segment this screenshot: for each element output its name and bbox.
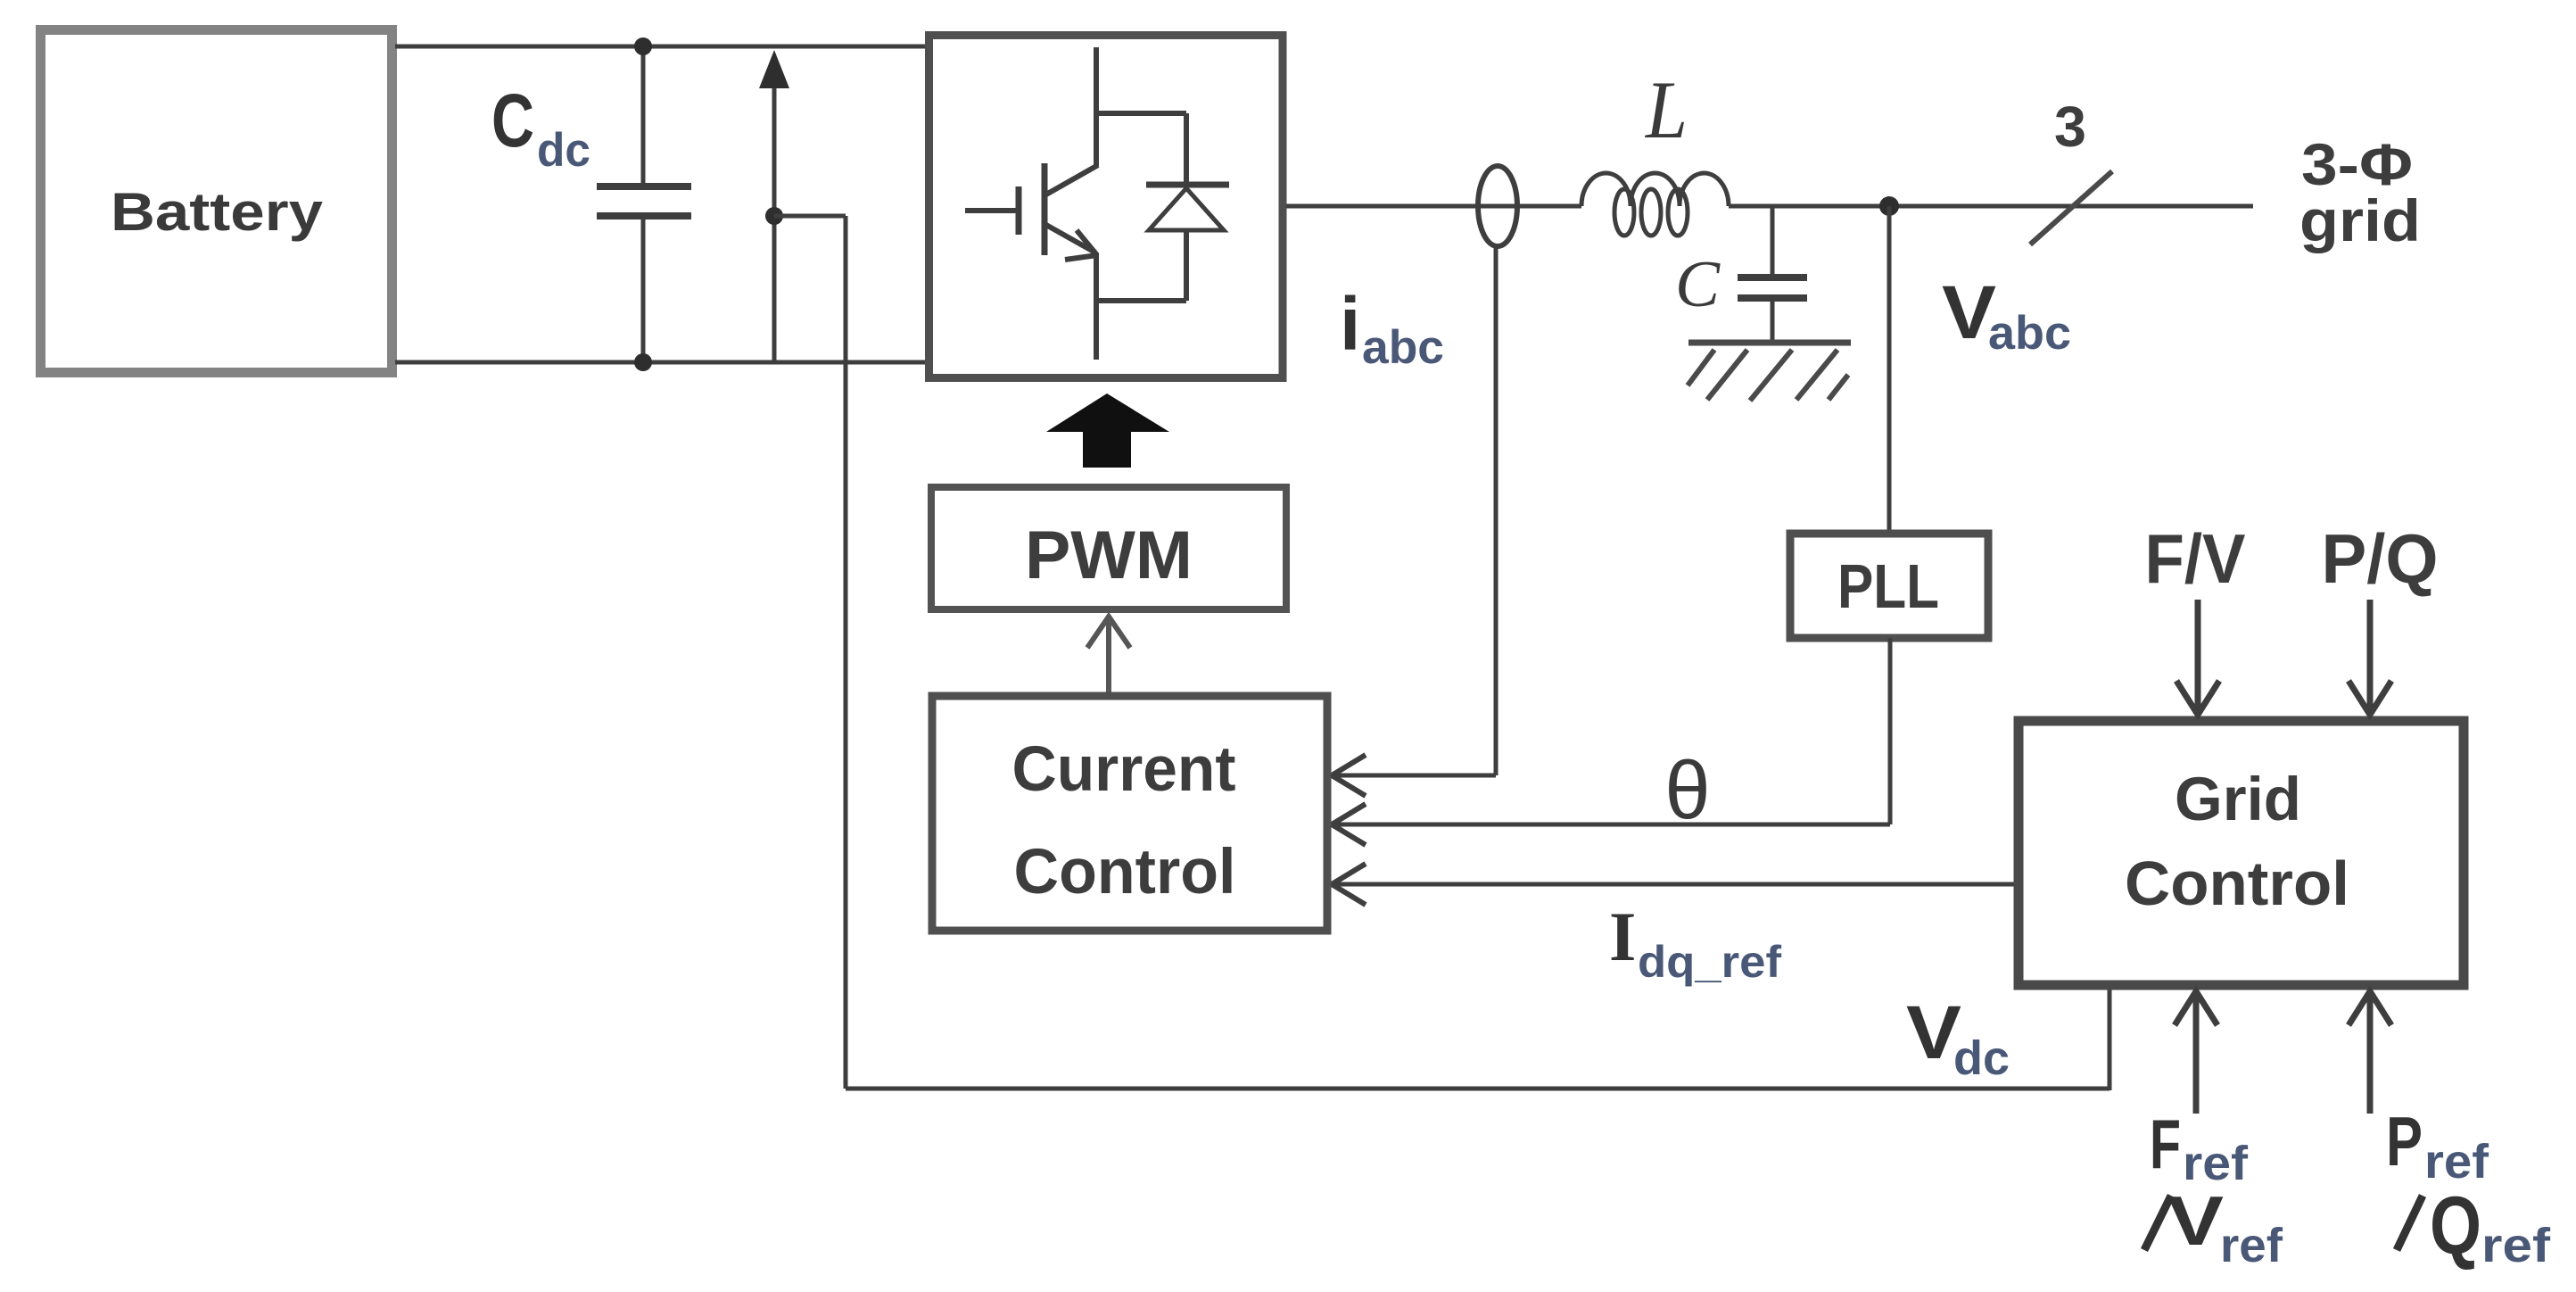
svg-text:Grid: Grid (2175, 765, 2301, 833)
arrow Pref/Qref into Grid Control bottom (2349, 991, 2391, 1114)
svg-text:Battery: Battery (111, 182, 324, 242)
diode (anti-parallel) (1096, 113, 1229, 301)
svg-text:dc: dc (537, 124, 590, 177)
svg-text:θ: θ (1664, 745, 1710, 836)
label Vabc (1942, 270, 2071, 360)
svg-text:i: i (1340, 282, 1360, 366)
wire: top DC bus (395, 45, 929, 49)
capacitor Cdc (597, 46, 691, 362)
svg-text:I: I (1609, 898, 1636, 975)
wire: AC output line (1286, 204, 2253, 209)
label Fref (2150, 1105, 2249, 1190)
svg-text:dc: dc (1953, 1031, 2010, 1085)
label Cdc (491, 79, 590, 177)
arrow F/V into Grid Control (2176, 600, 2219, 715)
label Idq_ref (1609, 898, 1781, 987)
transistor IGBT (965, 47, 1098, 360)
arrow P/Q into Grid Control (2349, 600, 2391, 715)
Vdc measurement arrow (759, 50, 789, 362)
svg-text:Current: Current (1012, 734, 1236, 805)
label /Vref (2144, 1181, 2283, 1272)
node: top junction dot (634, 37, 652, 55)
label iabc (1340, 282, 1444, 374)
svg-text:C: C (491, 79, 534, 162)
PLL block (1790, 534, 1988, 638)
wire: iabc feedback (1332, 244, 1496, 796)
ground (1688, 343, 1851, 401)
wire: Current Control to PWM arrow (1087, 617, 1130, 696)
svg-text:C: C (1675, 248, 1721, 321)
svg-text:P: P (2386, 1102, 2423, 1180)
wire: theta from PLL (1332, 638, 1890, 845)
wire: PLL input from AC node (1887, 206, 1892, 534)
wire: Vdc sense run to Grid Control (774, 216, 2110, 1090)
svg-text:P/Q: P/Q (2322, 519, 2439, 598)
svg-text:F: F (2150, 1105, 2181, 1183)
label Pref (2386, 1102, 2489, 1188)
wire: bottom DC bus (395, 360, 929, 365)
wire: Idq_ref from Grid Control to Current Control (1332, 864, 2019, 905)
node: Vdc tap dot (765, 207, 783, 225)
label 3-phase grid (2299, 131, 2421, 253)
svg-text:Control: Control (2125, 849, 2349, 918)
svg-text:abc: abc (1362, 321, 1444, 374)
capacitor C (filter) (1738, 206, 1807, 341)
battery block (41, 30, 392, 373)
current sensor CT (1478, 166, 1517, 246)
gate drive block arrow (PWM to inverter) (1046, 393, 1169, 468)
label /Qref (2397, 1180, 2551, 1272)
svg-text:3: 3 (2054, 95, 2086, 159)
label Vdc (1906, 990, 2010, 1085)
three-phase slash (2030, 171, 2112, 244)
svg-text:ref: ref (2481, 1219, 2551, 1272)
svg-text:abc: abc (1988, 307, 2071, 360)
PWM block (931, 487, 1286, 609)
inductor L (1581, 173, 1729, 236)
svg-text:grid: grid (2299, 187, 2421, 253)
svg-text:dq_ref: dq_ref (1638, 937, 1781, 987)
inverter block (929, 36, 1284, 378)
node: bottom junction dot (634, 353, 652, 371)
svg-text:Control: Control (1014, 837, 1236, 907)
svg-text:PLL: PLL (1837, 551, 1939, 621)
svg-text:F/V: F/V (2145, 519, 2246, 598)
svg-text:L: L (1644, 64, 1688, 155)
svg-text:Q: Q (2430, 1180, 2481, 1271)
Grid Control block (2019, 721, 2464, 985)
arrow Fref/Vref into Grid Control bottom (2175, 991, 2217, 1114)
Current Control block (932, 696, 1327, 931)
svg-text:PWM: PWM (1025, 518, 1193, 593)
node: AC junction dot (1879, 196, 1899, 216)
svg-text:V: V (2167, 1181, 2224, 1260)
svg-text:ref: ref (2220, 1219, 2283, 1272)
